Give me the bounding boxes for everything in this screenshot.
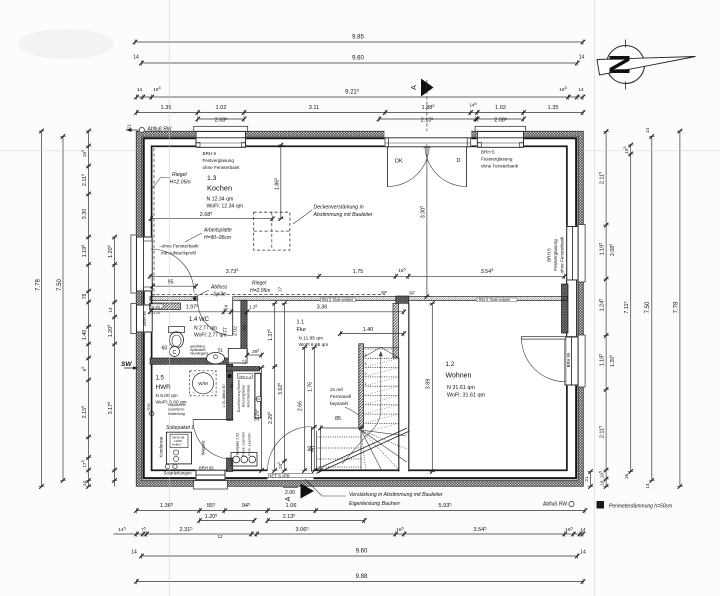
svg-text:21: 21 xyxy=(584,476,589,482)
svg-text:el. HK: el. HK xyxy=(152,305,160,309)
HWR right wall upper xyxy=(227,364,233,420)
svg-text:3.11: 3.11 xyxy=(309,105,319,111)
Verstaerkung note xyxy=(305,479,443,507)
svg-text:mit Aufsteckprofil: mit Aufsteckprofil xyxy=(161,251,196,256)
bottom chain 9.60 xyxy=(131,549,586,559)
svg-text:SF: SF xyxy=(381,290,387,296)
Riegel label 2 xyxy=(250,281,270,295)
svg-text:14: 14 xyxy=(580,527,586,532)
svg-text:1.5: 1.5 xyxy=(156,376,165,382)
svg-text:Spüle: Spüle xyxy=(213,292,226,298)
HWR right wall lower xyxy=(227,458,233,472)
svg-text:1.40: 1.40 xyxy=(363,327,374,333)
washing machine xyxy=(190,371,216,396)
svg-text:Gastherm-: Gastherm- xyxy=(168,408,186,412)
svg-text:Fermacell: Fermacell xyxy=(330,394,352,400)
stair lower treads xyxy=(317,431,362,471)
dim 3.62 vertical xyxy=(277,301,287,473)
small note box xyxy=(237,374,252,379)
svg-text:Verstärkung in Abstimmung m: Verstärkung in Abstimmung mit Bauleiter xyxy=(349,492,443,498)
svg-text:1.76: 1.76 xyxy=(307,382,313,392)
fixed glazing right wall (BRH 5) xyxy=(566,225,585,283)
svg-text:14: 14 xyxy=(578,87,584,93)
svg-text:1.1: 1.1 xyxy=(297,320,305,326)
svg-text:D: D xyxy=(457,158,461,164)
exterior insulation ring xyxy=(136,131,583,486)
svg-text:DK: DK xyxy=(395,159,403,165)
right chain total 7.78 xyxy=(673,129,682,489)
svg-text:Stellplatz 2.02: Stellplatz 2.02 xyxy=(236,433,240,456)
svg-text:7.50: 7.50 xyxy=(57,279,63,291)
svg-text:9.60: 9.60 xyxy=(352,56,364,62)
svg-text:BRH 5: BRH 5 xyxy=(203,151,217,156)
svg-text:7.78: 7.78 xyxy=(673,301,679,313)
svg-text:H=2.05m: H=2.05m xyxy=(250,288,270,294)
svg-text:Eigenleistung Bauherr: Eigenleistung Bauherr xyxy=(349,501,400,507)
svg-text:Fern. Leerrohr: Fern. Leerrohr xyxy=(248,432,252,456)
svg-text:Festverglasung: Festverglasung xyxy=(203,158,235,163)
window top-right (1.02 / BRH 5) xyxy=(475,126,526,147)
rotated shaft notes xyxy=(222,380,252,457)
svg-text:2.66: 2.66 xyxy=(298,401,304,411)
svg-text:Abfluss: Abfluss xyxy=(210,285,228,291)
dim 2.68 kitchen xyxy=(149,211,275,221)
dim 95 pass-through xyxy=(150,280,198,289)
Abfluss RW bottom right xyxy=(543,501,574,507)
svg-text:N 12.34 qm: N 12.34 qm xyxy=(207,197,234,203)
right secondary labels xyxy=(609,244,616,367)
stair top break symbol xyxy=(363,347,399,358)
drain node dot xyxy=(228,374,232,378)
svg-text:Perimeterdämmung h=50cm: Perimeterdämmung h=50cm xyxy=(609,504,672,510)
svg-text:77: 77 xyxy=(223,327,229,333)
svg-text:1.75: 1.75 xyxy=(353,269,364,275)
Deckenverstaerkung label xyxy=(293,205,373,225)
svg-text:BRH 95: BRH 95 xyxy=(566,352,571,367)
stair/Wohnen wall lower xyxy=(399,303,409,471)
svg-text:2.00: 2.00 xyxy=(285,490,295,496)
gas connection xyxy=(146,403,155,415)
entrance door leaf xyxy=(268,427,312,472)
left chain segments 2 xyxy=(107,235,117,487)
svg-text:H=90–95cm: H=90–95cm xyxy=(204,235,231,241)
stair wall upper hatched xyxy=(393,303,399,358)
svg-text:Flur: Flur xyxy=(297,327,307,333)
svg-text:Festverglasung: Festverglasung xyxy=(553,239,558,271)
svg-text:R54 ß. Stufe verklebt: R54 ß. Stufe verklebt xyxy=(479,298,510,302)
svg-text:1.02: 1.02 xyxy=(216,105,227,111)
dim 1.86 vertical kitchen xyxy=(274,143,284,221)
svg-text:7.78: 7.78 xyxy=(35,279,41,291)
svg-text:14: 14 xyxy=(108,307,113,313)
door swing arc kitchen left xyxy=(151,249,195,293)
R54 labels on band xyxy=(321,298,518,302)
svg-text:W/M: W/M xyxy=(198,381,208,386)
svg-text:1.3: 1.3 xyxy=(207,175,217,182)
Riegel dashed line above wall A xyxy=(151,294,385,296)
stair winder fan xyxy=(361,428,407,471)
svg-text:2x mit: 2x mit xyxy=(329,387,343,393)
bottom chain total 9.88 xyxy=(134,574,585,584)
svg-text:Heizung/Solar: Heizung/Solar xyxy=(242,384,246,407)
stair tread numbers xyxy=(365,353,367,386)
svg-text:Anschlußdose: Anschlußdose xyxy=(246,385,250,408)
svg-text:1.02: 1.02 xyxy=(495,105,506,111)
svg-text:C: C xyxy=(173,350,177,356)
svg-text:Riegel: Riegel xyxy=(172,172,188,178)
bottom chain row1 xyxy=(134,502,587,513)
dim 2.66 vertical xyxy=(298,345,308,473)
svg-text:–ohne Fensterbank: –ohne Fensterbank xyxy=(159,244,199,249)
svg-text:Abfluß RW: Abfluß RW xyxy=(543,502,567,508)
window-door right wall (BRH 95) xyxy=(565,335,585,387)
Abfluss Spuele label xyxy=(193,285,228,301)
svg-text:HWR: HWR xyxy=(156,384,172,391)
kitchen room label xyxy=(207,175,244,210)
svg-text:N 11.85 qm: N 11.85 qm xyxy=(299,336,323,342)
svg-text:WoFl: 2.77 qm: WoFl: 2.77 qm xyxy=(194,333,226,339)
north arrow xyxy=(597,40,696,90)
svg-text:14: 14 xyxy=(580,550,586,556)
dim 90 stair vertical xyxy=(311,428,324,473)
svg-text:Arbeitsplatte: Arbeitsplatte xyxy=(203,228,232,234)
svg-text:WoFl: 12.34 qm: WoFl: 12.34 qm xyxy=(207,204,244,210)
triple sink fixture xyxy=(231,453,257,467)
dim 85 stair xyxy=(318,416,363,431)
svg-text:ohne Fensterbank: ohne Fensterbank xyxy=(560,236,565,274)
dim 1.76/90 vertical xyxy=(307,345,317,473)
door leaf right wall xyxy=(522,337,566,382)
window top-left (1.02 / BRH 5) xyxy=(194,126,248,147)
wall B WC right xyxy=(241,300,247,348)
ceiling reinforcement dashed square xyxy=(254,212,290,250)
svg-text:WoFl: 31.61 qm: WoFl: 31.61 qm xyxy=(447,393,485,399)
svg-text:Kochen: Kochen xyxy=(207,184,232,193)
svg-text:16: 16 xyxy=(624,474,629,480)
svg-text:3.89: 3.89 xyxy=(426,379,432,390)
window label top right xyxy=(481,150,519,169)
svg-text:SF: SF xyxy=(409,291,415,297)
right chain 7.50 xyxy=(645,128,655,489)
door centre cross xyxy=(423,144,430,151)
svg-text:2: 2 xyxy=(365,372,367,376)
svg-text:14: 14 xyxy=(82,481,87,487)
svg-text:1.01 Attika 50: 1.01 Attika 50 xyxy=(222,384,226,407)
svg-text:ohne Fensterbank: ohne Fensterbank xyxy=(481,164,519,169)
svg-text:14: 14 xyxy=(137,87,143,93)
svg-text:16: 16 xyxy=(600,480,605,486)
svg-text:Kondensat: Kondensat xyxy=(159,436,164,458)
section marker A top xyxy=(411,79,434,132)
pier wall A at stair xyxy=(396,296,409,303)
svg-text:H=2.05m: H=2.05m xyxy=(170,180,192,186)
exterior wall inner line xyxy=(152,146,567,470)
washbasin WC xyxy=(207,353,225,364)
dim 3.30 vertical door axis xyxy=(420,146,430,299)
svg-text:BRH 95: BRH 95 xyxy=(199,466,214,471)
gas boiler note xyxy=(168,403,186,416)
bottom chain row1b xyxy=(197,513,366,523)
right chain 7.11 xyxy=(623,143,633,479)
dim 1.40 flur xyxy=(338,327,406,337)
HWR door xyxy=(193,420,233,460)
SW marker xyxy=(121,361,138,370)
svg-text:WoFl: 5.00 qm: WoFl: 5.00 qm xyxy=(156,400,187,406)
window bottom wall HWR (BRH 95) xyxy=(194,470,228,490)
left chain 7.50 xyxy=(57,134,66,482)
svg-text:9.85: 9.85 xyxy=(352,35,364,41)
dim 21 bottom right xyxy=(584,469,594,488)
WC door in wall A xyxy=(198,301,233,336)
exterior wall outer line xyxy=(144,138,577,478)
svg-text:14: 14 xyxy=(579,55,585,61)
svg-text:A: A xyxy=(411,85,418,90)
right chain segments xyxy=(599,129,609,488)
top chain total 9.85 xyxy=(133,35,585,45)
dim 2.25 vertical xyxy=(254,365,264,472)
svg-text:17: 17 xyxy=(278,287,283,293)
svg-text:innenliegend: innenliegend xyxy=(190,352,208,356)
radiator box below wall A xyxy=(150,303,181,315)
top chain 9.60 xyxy=(133,55,584,66)
svg-text:2.02: 2.02 xyxy=(233,326,239,336)
svg-text:95: 95 xyxy=(168,280,174,286)
svg-text:3: 3 xyxy=(365,362,367,366)
svg-text:HxBxT: HxBxT xyxy=(172,443,181,447)
top chain interior 9.21 xyxy=(134,86,585,100)
svg-text:Sack о. д: Sack о. д xyxy=(239,374,252,378)
svg-text:Durchführung Rohre: Durchführung Rohre xyxy=(237,380,241,413)
dim 1.37/2.29 vertical xyxy=(267,301,277,473)
stair walk line xyxy=(342,351,383,464)
dim row WC/Flur widths xyxy=(148,304,406,315)
svg-text:4: 4 xyxy=(365,353,367,357)
WC room label xyxy=(189,317,226,339)
svg-text:78: 78 xyxy=(82,294,88,300)
svg-text:BRH 5: BRH 5 xyxy=(547,248,552,262)
window label kitchen top xyxy=(203,151,241,170)
svg-text:Gas: Gas xyxy=(146,403,151,410)
svg-text:9.88: 9.88 xyxy=(356,574,368,580)
svg-text:1.40: 1.40 xyxy=(82,330,88,341)
standpipe shaft xyxy=(255,373,262,418)
tiny WC note xyxy=(190,345,208,356)
door opening D1 top (1.88) xyxy=(385,130,472,148)
dim row interior upper xyxy=(148,267,567,279)
svg-text:SW: SW xyxy=(121,361,132,368)
svg-text:Riegel: Riegel xyxy=(252,281,267,287)
svg-text:Abstimmung mit Bauleiter: Abstimmung mit Bauleiter xyxy=(313,212,373,218)
stair treads straight flight xyxy=(363,349,399,423)
HWR room label xyxy=(156,376,187,406)
WC bottom wall xyxy=(150,358,228,364)
svg-text:1.35: 1.35 xyxy=(548,105,559,111)
left chain total 7.78 xyxy=(35,129,44,489)
svg-text:90: 90 xyxy=(307,446,313,452)
lower wall segment below niche xyxy=(227,367,260,372)
stair stringer diagonal xyxy=(314,428,409,474)
svg-text:N 5.00 qm: N 5.00 qm xyxy=(156,393,178,399)
top chain segments xyxy=(134,102,585,115)
svg-text:21: 21 xyxy=(127,124,132,130)
dim 29 xyxy=(245,348,264,357)
svg-text:60: 60 xyxy=(162,346,168,352)
svg-text:14: 14 xyxy=(133,55,139,61)
window/door left wall kitchen (1.19) xyxy=(131,235,153,293)
legend perimeter insulation xyxy=(597,501,673,510)
toilet WC xyxy=(169,327,185,357)
door D1 right leaf D xyxy=(425,146,467,187)
svg-text:59: 59 xyxy=(230,384,234,388)
label Fermacell xyxy=(329,387,352,407)
svg-text:HET 5 IPB: HET 5 IPB xyxy=(268,474,290,479)
svg-text:12: 12 xyxy=(217,534,223,539)
dim 3.89 vertical wohnen xyxy=(426,301,435,474)
left chain segments xyxy=(81,129,91,489)
door D1 left leaf DK xyxy=(388,146,430,187)
wall B bottom stub xyxy=(240,349,247,355)
svg-text:85: 85 xyxy=(335,416,341,422)
svg-text:1.2: 1.2 xyxy=(446,361,455,368)
svg-text:A: A xyxy=(285,496,292,501)
washbasin niche xyxy=(228,348,247,363)
wall A kitchen/WC divider (thin dotted band) xyxy=(150,296,568,301)
svg-text:Wasser: Wasser xyxy=(201,440,206,455)
svg-text:24: 24 xyxy=(224,305,229,311)
Wohnen room label xyxy=(446,361,486,399)
svg-text:ohne Fensterbank: ohne Fensterbank xyxy=(203,165,241,170)
svg-text:N: N xyxy=(602,54,634,75)
svg-text:1.4 WC: 1.4 WC xyxy=(189,317,210,323)
column block right wall xyxy=(562,280,577,337)
bottom chain row2 xyxy=(114,526,586,538)
section marker A bottom xyxy=(283,484,314,502)
svg-text:1.06: 1.06 xyxy=(286,503,297,509)
Abfluss RW top left xyxy=(126,127,172,133)
stair diagonal texture xyxy=(363,358,399,432)
svg-text:Wohnen: Wohnen xyxy=(446,373,472,380)
svg-text:Festverglasung: Festverglasung xyxy=(481,157,513,162)
Riegel dashed line kitchen xyxy=(153,148,155,297)
entrance door opening bottom xyxy=(268,470,314,480)
Flur room label xyxy=(297,320,329,349)
svg-text:3.30: 3.30 xyxy=(82,209,88,220)
svg-text:Solarpaket 1: Solarpaket 1 xyxy=(166,425,194,431)
Arbeitsplatte label xyxy=(185,228,232,243)
svg-text:beplankt: beplankt xyxy=(330,401,349,407)
svg-text:BRH 5: BRH 5 xyxy=(481,150,495,155)
svg-text:Trock. Leerrohr: Trock. Leerrohr xyxy=(242,431,246,456)
svg-text:BRH 95: BRH 95 xyxy=(142,311,147,326)
solar tank unit xyxy=(165,432,191,468)
stair spindle wall xyxy=(359,344,364,429)
window left wall HWR (BRH 95) xyxy=(131,304,153,334)
svg-text:Solarleitungen: Solarleitungen xyxy=(164,471,193,476)
svg-text:N 31.61 qm: N 31.61 qm xyxy=(447,385,475,391)
svg-text:51: 51 xyxy=(218,348,224,353)
sub labels 2.08 row xyxy=(196,116,526,123)
Riegel label 1 xyxy=(151,172,192,191)
svg-text:14: 14 xyxy=(131,550,137,556)
svg-text:14: 14 xyxy=(645,483,650,489)
svg-text:R54 ß. Stufe verklebt: R54 ß. Stufe verklebt xyxy=(322,298,353,302)
svg-text:14: 14 xyxy=(645,128,650,134)
svg-text:Deckenverstärkung in: Deckenverstärkung in xyxy=(314,205,364,211)
svg-text:9.60: 9.60 xyxy=(356,549,368,555)
ohne Fensterbank label xyxy=(159,244,199,256)
svg-text:7.50: 7.50 xyxy=(645,301,651,313)
svg-text:SF: SF xyxy=(242,324,247,330)
svg-text:3.36: 3.36 xyxy=(317,305,328,311)
svg-text:12: 12 xyxy=(241,359,246,365)
svg-text:Abfluß RW: Abfluß RW xyxy=(148,127,172,133)
svg-text:N 2.77 qm: N 2.77 qm xyxy=(194,326,217,332)
svg-text:bedienung: bedienung xyxy=(168,412,185,416)
dim 77 / 2.02 rotated WC xyxy=(223,324,247,335)
label BRH 5 right rotated xyxy=(547,236,565,274)
